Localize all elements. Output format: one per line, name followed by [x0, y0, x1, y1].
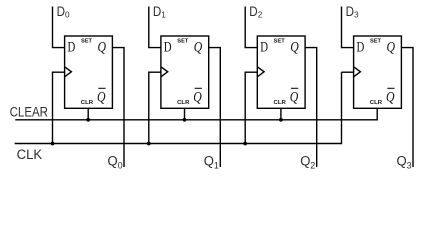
svg-text:0: 0	[118, 161, 123, 171]
svg-text:SET: SET	[81, 39, 93, 45]
svg-text:CLEAR: CLEAR	[10, 105, 49, 120]
svg-text:Q: Q	[204, 153, 214, 168]
svg-text:CLR: CLR	[370, 100, 382, 106]
svg-text:Q: Q	[290, 90, 299, 106]
svg-text:SET: SET	[177, 39, 189, 45]
svg-text:3: 3	[354, 10, 359, 20]
svg-text:CLR: CLR	[177, 100, 189, 106]
svg-text:Q: Q	[300, 153, 310, 168]
svg-text:2: 2	[310, 161, 315, 171]
svg-text:1: 1	[161, 10, 166, 20]
svg-text:D: D	[357, 40, 365, 56]
svg-text:Q: Q	[108, 153, 118, 168]
svg-text:D: D	[57, 4, 66, 19]
svg-text:Q: Q	[387, 40, 396, 56]
svg-text:2: 2	[258, 10, 263, 20]
svg-text:Q: Q	[194, 40, 203, 56]
svg-text:Q: Q	[290, 40, 299, 56]
svg-text:D: D	[164, 40, 172, 56]
svg-text:CLR: CLR	[274, 100, 286, 106]
svg-text:Q: Q	[98, 40, 107, 56]
svg-text:Q: Q	[193, 90, 202, 106]
svg-text:CLK: CLK	[17, 147, 43, 162]
svg-text:1: 1	[214, 161, 219, 171]
svg-text:Q: Q	[397, 153, 407, 168]
svg-text:Q: Q	[386, 90, 395, 106]
svg-text:3: 3	[407, 161, 412, 171]
svg-text:SET: SET	[370, 39, 382, 45]
svg-text:CLR: CLR	[81, 100, 93, 106]
svg-text:D: D	[249, 4, 258, 19]
svg-text:0: 0	[65, 10, 70, 20]
svg-text:D: D	[68, 40, 76, 56]
svg-text:D: D	[260, 40, 268, 56]
svg-text:Q: Q	[97, 90, 106, 106]
svg-text:D: D	[153, 4, 162, 19]
svg-text:SET: SET	[274, 39, 286, 45]
svg-text:D: D	[346, 4, 355, 19]
